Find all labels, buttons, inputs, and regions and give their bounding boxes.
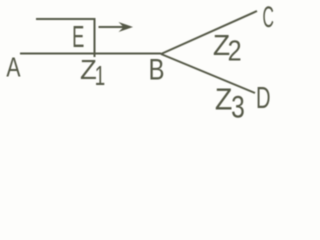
- svg-text:2: 2: [228, 35, 242, 67]
- svg-text:E: E: [72, 20, 84, 54]
- svg-text:C: C: [262, 1, 273, 33]
- svg-text:3: 3: [231, 88, 245, 124]
- svg-text:Z: Z: [215, 83, 233, 117]
- svg-text:D: D: [256, 82, 271, 115]
- svg-text:A: A: [6, 53, 21, 83]
- svg-text:1: 1: [95, 60, 106, 92]
- svg-text:B: B: [148, 52, 164, 86]
